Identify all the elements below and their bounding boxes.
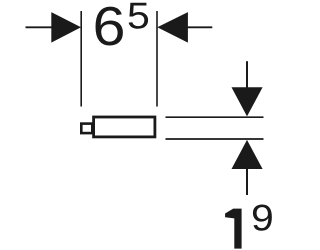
svg-text:9: 9 xyxy=(251,196,274,238)
svg-text:6: 6 xyxy=(93,0,126,57)
svg-text:5: 5 xyxy=(127,0,150,36)
